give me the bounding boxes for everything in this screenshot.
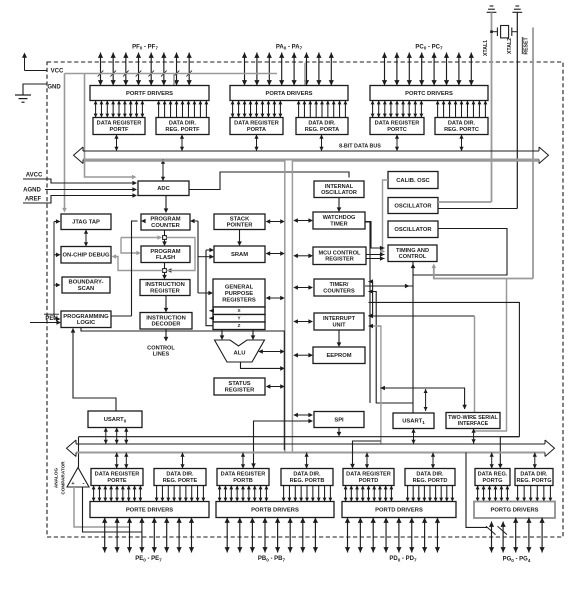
svg-text:VCC: VCC	[51, 69, 64, 75]
PORTC pin arrows PC0-PC7	[382, 53, 474, 86]
GPR-ALU arrow right	[251, 330, 256, 341]
gray net from PORTF pins	[65, 73, 278, 75]
GENERAL PURPOSE REGISTERS box	[213, 279, 265, 307]
DATA DIR. REG. PORTA box	[296, 118, 348, 135]
svg-text:PROGRAMMING: PROGRAMMING	[63, 314, 109, 320]
svg-text:DATA REGISTER: DATA REGISTER	[221, 472, 266, 478]
DATA DIR. REG. PORTB box	[281, 469, 333, 486]
arrows PORTA DRIVERS-DATA DIR PORTA	[297, 101, 348, 118]
RESET line	[532, 28, 534, 279]
svg-text:INTERFACE: INTERFACE	[458, 421, 489, 427]
ground symbol at XTAL1	[487, 6, 497, 12]
svg-text:PORTC DRIVERS: PORTC DRIVERS	[405, 91, 453, 97]
svg-text:PORTF: PORTF	[110, 127, 130, 133]
status-TWI wire	[380, 386, 467, 410]
arrows DATA DIR PORTE-PORTE DRIVERS	[155, 486, 206, 502]
AGND label	[23, 188, 41, 194]
PORTD DRIVERS box	[342, 502, 456, 518]
svg-text:PORTF DRIVERS: PORTF DRIVERS	[126, 91, 173, 97]
svg-text:INTERRUPT: INTERRUPT	[323, 316, 356, 322]
VCC pin arrow	[22, 53, 47, 71]
comparator - input wire	[83, 487, 142, 532]
PORTA DRIVERS box	[230, 86, 348, 101]
svg-text:SPI: SPI	[334, 417, 344, 423]
svg-text:DATA DIR.: DATA DIR.	[166, 472, 194, 478]
gray channel line B vertical	[291, 160, 293, 453]
MCU CONTROL REGISTER box	[313, 247, 366, 265]
arrows PORTF DRIVERS-DATA REGISTER PORTF	[94, 101, 145, 118]
AREF pin wire	[23, 193, 137, 203]
XTAL1 line	[491, 12, 493, 202]
svg-text:PORTG DRIVERS: PORTG DRIVERS	[491, 508, 539, 514]
dbl arrow channel to spi	[293, 413, 313, 418]
svg-text:REG. PORTG: REG. PORTG	[516, 478, 551, 484]
svg-text:REGISTER: REGISTER	[225, 387, 255, 393]
dbl arrow channel to mcu ctrl	[293, 254, 313, 259]
gray wire to JTAG TAP	[62, 74, 67, 213]
svg-text:ON-CHIP DEBUG: ON-CHIP DEBUG	[63, 253, 110, 259]
svg-text:FLASH: FLASH	[156, 255, 175, 261]
ALU right dbl arrow	[258, 349, 285, 354]
dbl arrow sram to channel	[266, 251, 285, 256]
svg-text:GENERAL: GENERAL	[225, 284, 254, 290]
arrows PORTA DRIVERS-DATA REGISTER PORTA	[231, 101, 283, 118]
svg-text:MCU CONTROL: MCU CONTROL	[319, 250, 362, 256]
svg-text:XTAL1: XTAL1	[483, 40, 489, 56]
bus stub portg reg	[490, 453, 494, 469]
PORTE DRIVERS box	[90, 502, 209, 518]
PB0-PB7 pin label	[258, 556, 286, 562]
DATA REGISTER PORTA box	[230, 118, 283, 135]
svg-text:PORTE DRIVERS: PORTE DRIVERS	[126, 507, 173, 513]
ground symbol at XTAL2	[512, 6, 522, 12]
timer-timing wire	[365, 284, 413, 289]
gray stub to PORTA drivers	[304, 63, 306, 85]
PORTB pin arrows PB0-PB7	[225, 518, 318, 553]
spi lower feed	[251, 419, 313, 468]
PROGRAM COUNTER box	[141, 214, 190, 230]
ADC right wire	[189, 172, 349, 190]
svg-text:DATA REGISTER: DATA REGISTER	[375, 121, 420, 127]
AREF label	[25, 197, 42, 203]
PORTG pin arrows PG0-PG1	[489, 522, 506, 553]
bus stub porte reg a	[115, 453, 119, 469]
svg-text:REGISTERS: REGISTERS	[222, 297, 256, 303]
PORTF analog bus-width slashes	[98, 71, 192, 77]
ADC box	[138, 181, 189, 196]
comparator apex wire	[78, 437, 80, 468]
gray drop to TWI	[474, 316, 476, 413]
svg-text:PF0 - PF7: PF0 - PF7	[132, 44, 158, 50]
INSTRUCTION REGISTER box	[140, 280, 190, 296]
svg-text:PORTD DRIVERS: PORTD DRIVERS	[375, 507, 423, 513]
TIMING AND CONTROL box	[388, 245, 437, 262]
svg-text:PG0 - PG4: PG0 - PG4	[503, 557, 531, 563]
svg-text:XTAL2: XTAL2	[507, 38, 513, 54]
svg-text:PROGRAM: PROGRAM	[150, 217, 180, 223]
dbl arrow channel to timer	[293, 285, 313, 290]
svg-text:PROGRAM: PROGRAM	[150, 249, 180, 255]
svg-text:PORTC: PORTC	[387, 127, 407, 133]
svg-text:Z: Z	[238, 323, 241, 328]
usart1 top dbl arrow	[424, 389, 428, 411]
svg-text:RESET: RESET	[524, 37, 530, 55]
svg-text:REG. PORTA: REG. PORTA	[305, 127, 339, 133]
XTAL1-osc1 wire	[438, 201, 492, 203]
PC-flash wire	[162, 230, 167, 246]
intosc-watchdog arrow	[337, 198, 342, 213]
USART1 box	[393, 413, 434, 429]
PEN wire	[30, 320, 61, 325]
svg-text:DATA DIR.: DATA DIR.	[416, 472, 444, 478]
osc2 clock wire	[413, 229, 507, 276]
GND label	[47, 85, 61, 91]
svg-text:COMPARATOR: COMPARATOR	[61, 461, 66, 495]
twi bus stub	[472, 429, 476, 444]
svg-text:PORTA: PORTA	[247, 127, 266, 133]
BOUNDARY-SCAN box	[62, 277, 110, 293]
DATA DIR. REG. PORTE box	[154, 469, 206, 486]
prog-logic to PC wire	[111, 219, 146, 316]
JTAG TAP box	[61, 214, 111, 230]
svg-text:DATA DIR.: DATA DIR.	[293, 472, 321, 478]
svg-text:Y: Y	[237, 316, 240, 321]
arrows PORTC DRIVERS-DATA DIR PORTC	[436, 101, 488, 118]
svg-text:GND: GND	[47, 85, 61, 91]
svg-text:REG. PORTF: REG. PORTF	[165, 127, 200, 133]
CPU service line 2	[206, 248, 214, 326]
SRAM box	[214, 246, 265, 263]
timer-interrupt wire 1	[368, 279, 373, 318]
portg bubble wire	[466, 453, 487, 528]
svg-text:SRAM: SRAM	[231, 252, 248, 258]
DATA DIR. REG. PORTF box	[156, 118, 209, 135]
svg-text:BOUNDARY-: BOUNDARY-	[69, 280, 104, 286]
PC right arrow from stack line	[190, 219, 198, 224]
Y register row	[213, 315, 265, 323]
long wire to PORTG	[79, 436, 520, 438]
OSCILLATOR box 1	[388, 198, 438, 214]
programming logic control line	[81, 328, 284, 451]
interrupt gray wire	[368, 324, 381, 444]
svg-text:DATA REGISTER: DATA REGISTER	[97, 121, 142, 127]
usart1 bus stub	[411, 429, 415, 445]
dbl arrow stack pointer to channel	[266, 219, 285, 224]
arrows DATA REGISTER PORTD-PORTD DRIVERS	[344, 486, 394, 502]
usart0 bus stubs	[104, 428, 129, 445]
arrows DATA DIR PORTB-PORTB DRIVERS	[282, 486, 333, 502]
bus stub PORTA data reg	[254, 135, 258, 152]
svg-text:OSCILLATOR: OSCILLATOR	[321, 190, 357, 196]
left service bus + arrows	[54, 219, 61, 321]
dbl arrow gpr to channel	[266, 296, 285, 301]
bus stub portd reg	[365, 453, 369, 469]
gray channel line B	[292, 160, 540, 162]
svg-text:REG. PORTE: REG. PORTE	[163, 478, 198, 484]
svg-text:TIMING AND: TIMING AND	[396, 248, 429, 254]
svg-text:DATA DIR.: DATA DIR.	[169, 121, 197, 127]
DATA REG. PORTG box	[475, 469, 510, 486]
svg-text:SCAN: SCAN	[78, 286, 94, 292]
svg-text:OSCILLATOR: OSCILLATOR	[394, 227, 432, 233]
arrows DATA REGISTER PORTB-PORTB DRIVERS	[218, 486, 269, 502]
svg-text:ADC: ADC	[157, 186, 170, 192]
watchdog timing wire	[365, 222, 385, 251]
comparator + input wire	[74, 487, 129, 527]
WATCHDOG TIMER box	[313, 212, 365, 229]
svg-text:PORTD: PORTD	[359, 478, 379, 484]
svg-text:DATA REGISTER: DATA REGISTER	[95, 472, 140, 478]
STATUS REGISTER box	[214, 378, 265, 395]
GND pin + ground symbol	[15, 84, 47, 102]
svg-text:JTAG TAP: JTAG TAP	[72, 220, 100, 226]
DATA REGISTER PORTD box	[343, 469, 394, 486]
svg-text:PB0 - PB7: PB0 - PB7	[258, 556, 286, 562]
ALU-status wire	[241, 362, 285, 371]
TWO-WIRE SERIAL INTERFACE box	[446, 413, 500, 429]
bus stub portb dir	[305, 453, 309, 469]
arrows DATA DIR PORTG-PORTG DRIVERS	[516, 486, 553, 502]
ALU	[215, 340, 265, 362]
CONTROL LINES text	[147, 346, 175, 352]
CALIB. OSC box	[388, 172, 438, 189]
svg-text:DATA REG.: DATA REG.	[478, 472, 508, 478]
svg-text:WATCHDOG: WATCHDOG	[323, 215, 356, 221]
ON-CHIP DEBUG box	[61, 247, 111, 264]
STACK POINTER box	[214, 214, 265, 230]
PE0-PE7 pin label	[135, 556, 162, 562]
PORTG pin arrows PG2-PG4	[513, 518, 545, 553]
PA0-PA7 pin label	[276, 44, 303, 50]
bus stub PORTC data dir	[459, 135, 463, 152]
PD0-PD7 pin label	[389, 556, 417, 562]
AGND pin wire	[45, 187, 137, 192]
PORTG DRIVERS box	[474, 502, 555, 519]
INSTRUCTION DECODER box	[140, 313, 192, 330]
arrows DATA REGISTER PORTE-PORTE DRIVERS	[92, 486, 143, 502]
arrows DATA DIR PORTD-PORTD DRIVERS	[406, 486, 455, 502]
interrupt-TWI wire	[368, 314, 474, 319]
portd reg feed	[350, 441, 381, 469]
bus stub PORTC data reg	[395, 135, 399, 152]
SPI box	[314, 412, 364, 428]
INTERNAL OSCILLATOR box	[314, 181, 364, 198]
bus stub portd dir	[431, 453, 435, 469]
AVCC pin wire	[23, 179, 137, 185]
wire ADC to program counter	[164, 196, 169, 214]
svg-text:PURPOSE: PURPOSE	[225, 291, 253, 297]
portg slash 1	[486, 526, 496, 534]
XTAL2-osc1 wire	[438, 208, 517, 210]
PROGRAMMING LOGIC box	[61, 311, 111, 328]
svg-text:REG. PORTC: REG. PORTC	[444, 127, 479, 133]
dbl arrow channel to watchdog	[293, 218, 313, 223]
reset wire to timing	[432, 264, 534, 279]
dbl arrow channel to eeprom	[293, 353, 313, 358]
svg-text:PORTA DRIVERS: PORTA DRIVERS	[265, 91, 312, 97]
arrows DATA REG PORTG-PORTG DRIVERS	[476, 486, 510, 502]
status right dbl arrow	[266, 384, 285, 389]
PORTA pin arrows PA0-PA7	[242, 53, 334, 86]
svg-text:PC0 - PC7: PC0 - PC7	[415, 44, 443, 50]
svg-text:DATA DIR.: DATA DIR.	[308, 121, 336, 127]
DATA DIR. REG. PORTD box	[405, 469, 455, 486]
svg-text:-: -	[83, 482, 85, 488]
svg-text:LOGIC: LOGIC	[77, 320, 96, 326]
usart0 feed wire	[71, 328, 116, 411]
gray wire to ADC	[85, 74, 137, 180]
TIMER/COUNTERS box	[314, 279, 364, 296]
svg-text:PORTG: PORTG	[483, 478, 503, 484]
svg-text:PE0 - PE7: PE0 - PE7	[135, 556, 162, 562]
bus stub PORTA data dir	[319, 135, 323, 152]
svg-text:STACK: STACK	[230, 216, 250, 222]
gray branch to TWI area	[474, 279, 507, 432]
svg-text:COUNTERS: COUNTERS	[323, 288, 355, 294]
svg-text:ANALOG: ANALOG	[54, 467, 59, 488]
bus stub PORTF data dir	[180, 135, 184, 152]
svg-text:COUNTER: COUNTER	[151, 223, 180, 229]
CONTROL LINES text 2	[153, 352, 170, 358]
calib osc gray wire	[380, 180, 388, 254]
svg-text:REGISTER: REGISTER	[150, 288, 180, 294]
USART0 box	[88, 411, 142, 428]
JTAG-OCD arrow	[84, 230, 88, 247]
PORTF pin arrows PF0-PF7	[98, 53, 192, 86]
DATA REGISTER PORTF box	[93, 118, 145, 135]
junction square above flash	[163, 236, 167, 240]
svg-text:DATA DIR.: DATA DIR.	[448, 121, 476, 127]
svg-text:CONTROL: CONTROL	[147, 346, 175, 352]
watchdog right vertical	[365, 222, 370, 403]
8-bit data bus (top)	[74, 147, 549, 163]
AVCC label	[26, 173, 43, 179]
svg-text:USART1: USART1	[402, 419, 425, 425]
8-BIT DATA BUS label	[339, 144, 381, 150]
ANALOG label	[54, 467, 59, 488]
DATA REGISTER PORTB box	[217, 469, 269, 486]
INTERRUPT UNIT box	[314, 313, 364, 330]
svg-text:EEPROM: EEPROM	[326, 353, 351, 359]
PG0-PG4 pin label	[503, 557, 531, 563]
control lines arrow	[164, 329, 169, 342]
svg-text:REG. PORTD: REG. PORTD	[413, 478, 448, 484]
bus stub portg dir	[533, 453, 537, 469]
PORTC DRIVERS box	[370, 86, 488, 101]
flash-IR wire	[162, 263, 167, 280]
svg-text:POINTER: POINTER	[227, 223, 254, 229]
RESET label	[524, 37, 530, 55]
junction square below flash	[163, 269, 167, 273]
svg-text:AGND: AGND	[23, 188, 41, 194]
svg-text:USART0: USART0	[104, 417, 127, 423]
PEN overline	[44, 313, 59, 315]
RESET overline	[521, 37, 523, 54]
svg-text:INTERNAL: INTERNAL	[325, 184, 354, 190]
svg-text:DATA REGISTER: DATA REGISTER	[346, 472, 391, 478]
svg-text:PORTE: PORTE	[107, 478, 127, 484]
PORTF DRIVERS box	[90, 86, 209, 101]
svg-text:STATUS: STATUS	[228, 381, 250, 387]
bus stub porte dir	[180, 453, 184, 469]
EEPROM box	[313, 347, 365, 364]
on-chip debug gray loop	[112, 235, 196, 270]
mcu ctrl timing wires	[366, 252, 385, 261]
svg-text:INSTRUCTION: INSTRUCTION	[145, 282, 185, 288]
arrow into lower junction square	[167, 268, 172, 273]
analog comparator triangle	[67, 468, 89, 488]
GPR-ALU arrow left	[220, 330, 225, 341]
dbl arrow channel to interrupt	[293, 319, 313, 324]
X register row	[213, 307, 265, 315]
PF0-PF7 pin label	[132, 44, 158, 50]
svg-text:AVCC: AVCC	[26, 173, 43, 179]
crystal between XTAL1/XTAL2	[490, 26, 517, 38]
svg-text:8-BIT DATA BUS: 8-BIT DATA BUS	[339, 144, 381, 150]
svg-text:PEN: PEN	[45, 316, 57, 322]
DATA DIR. REG. PORTG box	[515, 469, 553, 486]
VCC label	[51, 69, 64, 75]
portg slash 2	[498, 526, 508, 534]
data bus (bottom)	[67, 440, 555, 456]
svg-text:+: +	[71, 481, 74, 487]
svg-text:DATA REGISTER: DATA REGISTER	[234, 121, 279, 127]
PORTE pin arrows PE0-PE7	[102, 518, 194, 553]
PC0-PC7 pin label	[415, 44, 443, 50]
timer-usart wire	[368, 289, 413, 403]
spi bus stub	[337, 428, 342, 437]
CPU service line 1	[198, 221, 214, 295]
svg-text:PD0 - PD7: PD0 - PD7	[389, 556, 417, 562]
eeprom top arrow	[337, 330, 342, 347]
Z register row	[213, 322, 265, 330]
svg-text:OSCILLATOR: OSCILLATOR	[394, 203, 432, 209]
IR-ID wire	[164, 296, 169, 313]
XTAL2 line	[516, 12, 518, 208]
svg-text:TIMER/: TIMER/	[330, 282, 349, 288]
svg-text:LINES: LINES	[153, 352, 170, 358]
gray channel line A	[85, 161, 285, 452]
timing ctrl vertical	[411, 262, 416, 414]
svg-text:PORTB: PORTB	[233, 478, 253, 484]
svg-text:REG. PORTB: REG. PORTB	[290, 478, 325, 484]
DATA DIR. REG. PORTC box	[435, 118, 488, 135]
svg-text:DATA DIR.: DATA DIR.	[520, 472, 548, 478]
PROGRAM FLASH box	[141, 246, 190, 263]
bus stub to ADC	[161, 160, 165, 182]
PORTD pin arrows PD0-PD7	[345, 518, 440, 553]
PEN label	[45, 316, 57, 322]
bus stub PORTF data reg	[114, 135, 118, 152]
bus stub porte reg b	[124, 453, 128, 469]
svg-text:PA0 - PA7: PA0 - PA7	[276, 44, 303, 50]
svg-text:REGISTER: REGISTER	[325, 257, 354, 263]
arrows PORTC DRIVERS-DATA REGISTER PORTC	[371, 101, 424, 118]
arrows PORTF DRIVERS-DATA DIR PORTF	[157, 101, 209, 118]
svg-text:INSTRUCTION: INSTRUCTION	[146, 315, 186, 321]
XTAL1 label	[483, 40, 489, 56]
svg-text:CALIB. OSC: CALIB. OSC	[396, 178, 430, 184]
portg reg feed	[498, 437, 519, 469]
DATA REGISTER PORTE box	[91, 469, 143, 486]
bus stub portb reg	[241, 453, 245, 469]
DATA REGISTER PORTC box	[370, 118, 424, 135]
gray stub to PORTF drivers	[173, 74, 175, 86]
chip boundary (dashed)	[47, 62, 563, 537]
XTAL2 label	[507, 38, 513, 54]
svg-text:AREF: AREF	[25, 197, 42, 203]
svg-text:ALU: ALU	[234, 351, 246, 357]
